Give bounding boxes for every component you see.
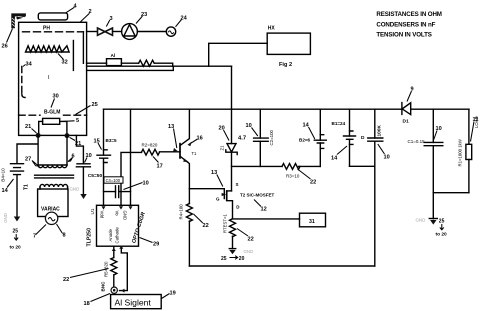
resistor R3=10 bbox=[282, 164, 300, 170]
MOSFET T2 channel bbox=[226, 190, 228, 201]
svg-text:14: 14 bbox=[2, 188, 9, 194]
svg-text:22: 22 bbox=[310, 180, 316, 186]
pump 23 bbox=[122, 24, 138, 40]
transformer core bbox=[35, 175, 74, 178]
svg-text:C1=0.15: C1=0.15 bbox=[408, 139, 426, 144]
svg-text:GND: GND bbox=[244, 249, 254, 254]
wire pump-source bbox=[137, 31, 166, 33]
collector bbox=[180, 109, 189, 145]
svg-text:22: 22 bbox=[63, 277, 69, 283]
ground arrow C1 node 25-20 bbox=[429, 218, 437, 220]
wire line C (cathode lead) bbox=[87, 66, 174, 70]
battery 14 B4=10 bbox=[11, 164, 24, 175]
svg-text:Al Siglent: Al Siglent bbox=[115, 298, 152, 308]
load return wire bbox=[433, 192, 469, 194]
wire transformer right bbox=[66, 136, 68, 165]
capacitor C3 100K bbox=[374, 109, 376, 266]
svg-text:R4=100: R4=100 bbox=[179, 204, 184, 220]
svg-text:C4=100: C4=100 bbox=[106, 178, 121, 183]
svg-text:to 20: to 20 bbox=[436, 232, 448, 238]
svg-text:HX: HX bbox=[268, 26, 276, 32]
wire bbox=[121, 62, 138, 64]
svg-text:C2=100: C2=100 bbox=[269, 129, 274, 145]
zener branch wire bbox=[231, 66, 233, 143]
svg-text:Vo: Vo bbox=[114, 211, 119, 217]
svg-text:Z1: Z1 bbox=[220, 145, 225, 151]
mid rail wire bbox=[232, 165, 283, 167]
signal generator box Al Siglent bbox=[111, 295, 162, 309]
wire box5 left bbox=[39, 121, 43, 135]
svg-text:C5=50: C5=50 bbox=[88, 173, 103, 179]
wire valve-pump bbox=[113, 31, 122, 33]
drain connection bbox=[227, 201, 233, 219]
svg-text:Anode: Anode bbox=[108, 228, 113, 241]
lid box 4 bbox=[38, 13, 67, 20]
svg-text:100K: 100K bbox=[377, 124, 383, 136]
svg-text:25: 25 bbox=[439, 218, 445, 224]
pH level dashed line bbox=[23, 31, 84, 33]
vessel bottom dashed line bbox=[19, 114, 40, 116]
svg-text:26: 26 bbox=[2, 44, 8, 50]
wire U1 cathode pin down bbox=[113, 246, 115, 257]
svg-text:10: 10 bbox=[143, 181, 149, 187]
diode D1 bbox=[401, 103, 403, 115]
svg-text:T1: T1 bbox=[24, 184, 30, 190]
stirrer bracket 26 bbox=[11, 13, 26, 28]
zener diode Z1 4.7 bbox=[227, 144, 236, 152]
svg-text:D: D bbox=[361, 135, 365, 141]
svg-text:U1: U1 bbox=[90, 208, 95, 214]
scope box 31 bbox=[300, 213, 326, 227]
svg-text:8: 8 bbox=[63, 233, 66, 239]
wire line A (anode lead) bbox=[87, 62, 107, 64]
svg-text:GND: GND bbox=[3, 213, 8, 223]
battery B1=24 bbox=[349, 109, 351, 166]
transformer T1 primary bbox=[38, 165, 67, 168]
battery 15 B3=5 wire bbox=[103, 109, 105, 205]
svg-text:T1: T1 bbox=[192, 151, 198, 156]
vessel 1 (reactor tank) bbox=[19, 22, 87, 135]
svg-text:to 20: to 20 bbox=[10, 245, 22, 251]
wire box5 right bbox=[60, 121, 67, 135]
svg-text:27: 27 bbox=[25, 157, 31, 163]
capacitor C2=100 bbox=[259, 109, 261, 166]
gate drive wire bbox=[189, 189, 224, 199]
svg-text:32: 32 bbox=[62, 60, 68, 66]
wire to bend bbox=[154, 63, 173, 66]
svg-text:R1=1000 1kW: R1=1000 1kW bbox=[458, 138, 463, 166]
svg-text:TLP250: TLP250 bbox=[87, 228, 93, 247]
svg-text:22: 22 bbox=[203, 223, 209, 229]
svg-text:S: S bbox=[236, 182, 239, 187]
bottom rail wire bbox=[189, 265, 374, 267]
wire GND pin to bus bbox=[130, 109, 132, 205]
svg-text:GND: GND bbox=[122, 211, 127, 221]
svg-text:Al: Al bbox=[111, 53, 116, 59]
svg-text:10: 10 bbox=[246, 123, 252, 129]
transformer secondary bbox=[40, 184, 68, 187]
sample Al bbox=[107, 59, 122, 66]
svg-text:4.7: 4.7 bbox=[238, 135, 246, 141]
svg-text:B1=24: B1=24 bbox=[332, 121, 346, 126]
main bus wire bbox=[104, 108, 470, 110]
svg-text:16: 16 bbox=[197, 136, 203, 142]
svg-text:5: 5 bbox=[76, 118, 79, 124]
svg-text:RTEST=1: RTEST=1 bbox=[223, 213, 228, 233]
svg-text:TENSION IN VOLTS: TENSION IN VOLTS bbox=[376, 32, 431, 39]
VARIAC box 7/8 bbox=[38, 189, 68, 217]
svg-text:18: 18 bbox=[84, 301, 90, 307]
svg-text:7: 7 bbox=[33, 234, 36, 240]
svg-text:25: 25 bbox=[13, 229, 19, 235]
electrode wire (pH probe) bbox=[82, 32, 84, 64]
wire R2 to base bbox=[160, 151, 181, 153]
pipe to valve bbox=[87, 31, 98, 33]
svg-text:Cathode: Cathode bbox=[115, 227, 120, 244]
svg-text:R2=820: R2=820 bbox=[142, 142, 158, 147]
svg-text:31: 31 bbox=[309, 219, 315, 225]
svg-text:24: 24 bbox=[181, 15, 188, 21]
svg-text:25: 25 bbox=[221, 256, 227, 262]
capacitor C1=0.15 bbox=[432, 109, 434, 219]
svg-text:Vdd: Vdd bbox=[100, 211, 105, 219]
capacitor C4 bbox=[104, 191, 131, 193]
wire Vo pin to R2 bbox=[121, 152, 142, 205]
valve 3 bbox=[98, 28, 113, 35]
wire bat14 branch bbox=[17, 135, 38, 165]
svg-text:12: 12 bbox=[261, 207, 267, 213]
heater element 32 bbox=[26, 46, 70, 52]
svg-text:19: 19 bbox=[170, 291, 176, 297]
junction node 21 right bbox=[65, 133, 70, 138]
resistor R5=820 bbox=[111, 258, 117, 275]
electrode rod bbox=[72, 41, 74, 71]
transistor T1 (BJT) bbox=[179, 143, 181, 159]
AC source 24 bbox=[166, 27, 175, 36]
svg-text:BNC: BNC bbox=[100, 281, 105, 292]
svg-text:25: 25 bbox=[92, 102, 98, 108]
loop B1 to C3 bbox=[350, 165, 375, 167]
ground arrow C5 bbox=[80, 194, 86, 199]
svg-text:10: 10 bbox=[384, 155, 390, 161]
svg-text:29: 29 bbox=[153, 242, 159, 248]
wire to scope box bbox=[233, 218, 300, 220]
svg-text:PH: PH bbox=[43, 26, 50, 32]
battery 15 plates bbox=[97, 150, 111, 163]
capacitor C5=50 bbox=[76, 164, 90, 167]
wire to HX bbox=[209, 43, 268, 66]
svg-text:CONDENSERS IN nF: CONDENSERS IN nF bbox=[376, 21, 435, 28]
wire capacitor C5 branch bbox=[76, 135, 83, 163]
emitter bbox=[180, 156, 189, 203]
resistor R4=100 bbox=[186, 204, 192, 222]
svg-text:Fig 2: Fig 2 bbox=[279, 62, 292, 68]
ground RTEST node 25-20 bbox=[229, 248, 235, 250]
wire line B (to driver) bbox=[87, 65, 232, 67]
ground arrow (node 25) bbox=[14, 217, 20, 222]
pin arrows top bbox=[102, 206, 133, 209]
optocoupler U1 TLP250 bbox=[97, 205, 139, 246]
junction node 21 left bbox=[36, 133, 41, 138]
svg-text:3: 3 bbox=[110, 16, 113, 22]
label box C4=100 bbox=[104, 177, 123, 183]
svg-text:20: 20 bbox=[239, 256, 245, 262]
wire U1 anode pin loop bbox=[120, 246, 128, 290]
resistor in line A bbox=[139, 60, 155, 66]
svg-text:GND: GND bbox=[416, 218, 426, 223]
load resistor R1 bbox=[468, 109, 470, 193]
heat exchanger HX bbox=[267, 33, 310, 54]
BNC connector 18 bbox=[111, 287, 117, 293]
svg-text:B2=6: B2=6 bbox=[299, 138, 311, 143]
svg-text:21: 21 bbox=[25, 124, 31, 130]
source connection bbox=[227, 190, 232, 192]
svg-text:34: 34 bbox=[26, 62, 33, 68]
svg-text:17: 17 bbox=[157, 164, 163, 170]
svg-text:T2 SiC-MOSFET: T2 SiC-MOSFET bbox=[240, 193, 275, 198]
svg-text:RESISTANCES IN OHM: RESISTANCES IN OHM bbox=[376, 11, 441, 18]
svg-text:G: G bbox=[216, 197, 220, 202]
svg-text:B4=10: B4=10 bbox=[1, 168, 6, 182]
svg-text:D1: D1 bbox=[403, 118, 409, 124]
title text bbox=[376, 11, 441, 38]
svg-text:22: 22 bbox=[248, 237, 254, 243]
svg-text:14: 14 bbox=[331, 156, 338, 162]
svg-text:13: 13 bbox=[211, 170, 217, 176]
svg-text:GND: GND bbox=[70, 187, 80, 192]
resistor RTEST=1 bbox=[230, 219, 236, 237]
svg-text:B-GLM: B-GLM bbox=[44, 110, 60, 116]
battery B2=6 bbox=[319, 109, 321, 166]
svg-text:B3=5: B3=5 bbox=[106, 138, 118, 143]
svg-text:R3=10: R3=10 bbox=[286, 174, 300, 179]
svg-text:30: 30 bbox=[53, 94, 59, 100]
electrode holder 5 bbox=[43, 118, 60, 124]
